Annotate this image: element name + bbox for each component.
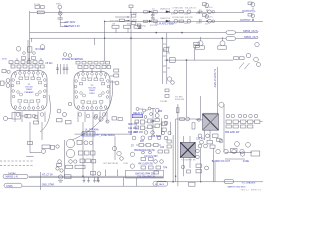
resistor R1b [41, 6, 45, 9]
transformer T2 [203, 113, 219, 130]
svg-text:OUT SEC 8R 4R: OUT SEC 8R 4R [103, 163, 119, 165]
svg-text:C15 470p: C15 470p [137, 26, 147, 28]
svg-text:1N4007 D3: 1N4007 D3 [160, 9, 171, 11]
cluster right-top circle+box 1 [198, 41, 203, 46]
wires right of V2 [110, 76, 115, 82]
wire vertical x103 [104, 21, 106, 61]
circle Q2 [174, 19, 178, 23]
connector box right 1 [226, 31, 236, 35]
svg-text:1W: 1W [112, 23, 115, 25]
svg-text:12AX7: 12AX7 [89, 89, 96, 92]
stubs into V1 top pins [20, 68, 38, 71]
wire T1 verticals [176, 104, 190, 186]
parts row under block2 [99, 117, 103, 121]
mid-right small parts [163, 37, 261, 97]
below T2 extra [198, 144, 202, 148]
circle TP1 [58, 5, 62, 9]
diagonal strokes [239, 63, 250, 70]
far right cluster [235, 142, 240, 147]
tube V2 [74, 72, 110, 111]
wire arrow feed [115, 17, 130, 21]
wire block1 drops [15, 112, 45, 153]
stubs into V2 top pins [83, 68, 101, 72]
ground [87, 177, 90, 182]
svg-text:350-0-350: 350-0-350 [175, 99, 185, 101]
wire rail2 top [105, 20, 263, 22]
T1 microtext [181, 160, 196, 162]
svg-text:C7 R9 100K: C7 R9 100K [172, 8, 184, 10]
svg-text:R30: R30 [158, 111, 163, 113]
svg-text:1N4007 D4: 1N4007 D4 [160, 18, 171, 20]
top-left cluster [35, 5, 125, 22]
capacitor below [138, 26, 142, 28]
ground left [96, 177, 99, 181]
caps between tubes [56, 64, 68, 74]
circles at 167-175 y77-84 [167, 77, 171, 81]
svg-text:C24 47u 50V: C24 47u 50V [144, 156, 158, 158]
wire tick left [26, 156, 33, 158]
svg-text:C12 47u: C12 47u [205, 17, 213, 19]
wire bottom verticals right-center [124, 108, 174, 186]
cluster top-right 1a [205, 4, 209, 8]
small box on right bus [189, 182, 196, 186]
node dots rails [152, 12, 153, 13]
wire dashes bottom left [0, 165, 33, 167]
ticks on verticals [163, 44, 170, 72]
svg-text:1: 1 [15, 77, 16, 79]
diode D4 [166, 20, 170, 22]
wire bottom double bus [29, 176, 163, 177]
resistor R5 [153, 11, 157, 13]
svg-text:F1 2A: F1 2A [34, 3, 40, 6]
svg-text:PRESENCE R40 5K: PRESENCE R40 5K [134, 150, 155, 152]
svg-text:3: 3 [87, 76, 88, 78]
wire curve flourish [72, 80, 113, 140]
svg-text:J2 IN: J2 IN [2, 59, 8, 61]
tube V1 pins sides [11, 79, 46, 98]
between-block mid parts [57, 102, 72, 124]
svg-text:COM: COM [123, 163, 128, 165]
parts left of bus end [196, 164, 202, 167]
stubs above V1 [11, 58, 41, 65]
connector box bottom right [224, 179, 234, 183]
circle Q3 [187, 10, 191, 14]
wire line y152 right [225, 151, 252, 153]
blue relay box [132, 114, 142, 118]
circles right-mid [246, 53, 251, 58]
box on vertical x166 [164, 48, 169, 52]
cluster top-right 2a [251, 3, 255, 7]
row2 [78, 151, 83, 155]
wire right connector line2 [236, 38, 259, 40]
ground [83, 177, 86, 182]
wire line B y38.2 [30, 37, 226, 39]
tube V2 inner parts [79, 75, 106, 107]
parts right of V2 [114, 69, 119, 72]
svg-text:GND_STAR: GND_STAR [42, 184, 55, 187]
resistor R3 on vertical trunk [28, 47, 32, 52]
svg-text:CHAS: CHAS [6, 185, 13, 188]
svg-text:C21 100n: C21 100n [128, 128, 139, 130]
svg-text:P.INV: P.INV [89, 93, 95, 95]
wire T2 verticals [204, 104, 224, 140]
wire rail1 top full [30, 11, 244, 13]
svg-text:NFB 47K: NFB 47K [128, 124, 138, 126]
row above V1 lower [11, 65, 15, 68]
tube V1 pins bottom [14, 106, 44, 110]
row3 [80, 159, 85, 163]
svg-text:SHEET 1/1: SHEET 1/1 [251, 190, 262, 192]
gray footer text [241, 189, 262, 191]
svg-text:R35 1K5: R35 1K5 [134, 132, 144, 134]
boxes at 194 [194, 42, 200, 45]
gray text above notes table [103, 163, 128, 165]
vertical x115 [114, 137, 116, 161]
arrowheads [128, 16, 130, 21]
wire blue net vertical x217 [216, 67, 218, 114]
svg-text:SPKR_OUT-: SPKR_OUT- [244, 35, 259, 39]
resistor R7 [179, 11, 183, 14]
resistor R6 [153, 20, 157, 22]
wire vertical x162 [161, 38, 163, 84]
top-center chain components [112, 2, 255, 29]
svg-text:R15 470K: R15 470K [110, 21, 120, 23]
svg-text:OUTPUT_R: OUTPUT_R [240, 18, 254, 22]
svg-text:C26 100u R45 1K: C26 100u R45 1K [137, 176, 156, 178]
wire vertical x94 [93, 38, 95, 45]
svg-text:HT_CT 0V: HT_CT 0V [42, 175, 53, 177]
node dot trunk x131 [130, 37, 132, 39]
tube V1 [11, 71, 47, 111]
svg-text:R37: R37 [140, 141, 145, 143]
below tube circles [16, 113, 106, 118]
circle Q5 [208, 10, 212, 14]
tube V2 pins sides [74, 80, 109, 99]
circle TP above V1 [16, 47, 21, 52]
extra parts near trunk [22, 52, 36, 60]
small boxes left of diodes [144, 11, 148, 13]
tube V2 pin numbers [78, 76, 106, 79]
box atop x131 vertical [129, 5, 133, 8]
gray text above cluster [160, 100, 168, 103]
resistor R8 [179, 20, 183, 23]
row above V1 upper [9, 61, 13, 64]
svg-text:REV 1.2: REV 1.2 [241, 189, 250, 191]
wire parts row mid-left stubs [116, 28, 128, 32]
gray text above T1 column [175, 97, 185, 102]
svg-text:C8 R10 100K: C8 R10 100K [172, 17, 185, 19]
blue label above V2 [62, 58, 83, 61]
cluster above bus [91, 171, 96, 175]
resistor boxes near x131 [131, 15, 136, 18]
wire dashes bottom left 2 [0, 160, 33, 162]
svg-text:TO_CHASSIS: TO_CHASSIS [242, 181, 256, 184]
blue microtext above box1 [8, 172, 16, 175]
svg-text:R38 560R: R38 560R [151, 136, 162, 138]
svg-text:6: 6 [101, 77, 102, 79]
svg-text:4: 4 [29, 75, 30, 77]
gray microtext parts row [110, 21, 134, 26]
node dot bus [82, 175, 84, 177]
svg-text:PREAMP: PREAMP [24, 91, 34, 94]
wire y134 [75, 133, 132, 135]
net labels blue right [240, 9, 259, 39]
resistor R1 [35, 6, 39, 9]
resistor box x169-175 [169, 58, 175, 63]
diode D2 [149, 20, 152, 22]
wire horizontal y60 right [165, 59, 234, 61]
svg-text:240VAC: 240VAC [8, 172, 16, 175]
svg-text:C19: C19 [150, 121, 155, 123]
bottom center dense cluster [130, 107, 171, 174]
net label bottom left connector 1 [6, 176, 18, 179]
tube V2 label [88, 85, 96, 95]
tube V1 inner parts [16, 74, 43, 106]
wire vertical x167 [166, 33, 168, 84]
wire bottom verticals far right [201, 131, 224, 182]
parts row between rail2 and lineA left [112, 25, 119, 28]
row1 right of cap [77, 140, 82, 144]
svg-text:630V: 630V [127, 23, 132, 25]
wire curve flourish 2 [40, 95, 50, 132]
blue label between tubes [45, 63, 53, 65]
right-mid cluster boxes [234, 57, 239, 60]
wire vertical trunk pair [27, 40, 29, 64]
diode D1 [149, 11, 152, 13]
tiny blue label left [2, 59, 8, 61]
circles column left [130, 152, 134, 156]
svg-text:10n: 10n [196, 13, 199, 15]
wire bottom lower bus left [22, 185, 157, 187]
svg-text:4: 4 [92, 76, 93, 78]
net label above bus1 [42, 175, 53, 177]
gray microtext above chains [133, 7, 213, 27]
svg-text:5: 5 [96, 76, 97, 78]
wire vertical x60 [60, 15, 68, 26]
ground symbols under double bus [83, 177, 100, 182]
capacitor pair x200 [198, 10, 203, 15]
circle Q6 [208, 19, 212, 23]
wire vertical x186.5 [186, 60, 188, 117]
wire right connector line1 [236, 32, 259, 34]
right of T2 rows [226, 114, 230, 118]
circles column x157 [155, 108, 159, 112]
svg-text:UL_TAP 40%: UL_TAP 40% [85, 129, 99, 132]
tube V1 pins top [14, 72, 44, 76]
circle below blue vertical [219, 102, 224, 107]
tube V1 label [24, 84, 34, 94]
svg-text:R17 1M: R17 1M [150, 25, 157, 27]
wire T2 left [196, 119, 203, 121]
circles between tubes upper [63, 53, 67, 57]
net label bottom right of box [228, 181, 256, 188]
connector box bottom mid [153, 181, 168, 186]
svg-text:7: 7 [105, 78, 106, 80]
svg-text:B+ SUPPLY 325V: B+ SUPPLY 325V [213, 69, 215, 88]
transformer T1 [180, 142, 195, 157]
net label bottom left connector 2 [6, 185, 13, 188]
parts below T1 [181, 165, 190, 173]
svg-text:TP4: TP4 [163, 168, 168, 170]
wire bottom verticals center [64, 139, 136, 186]
ground [97, 177, 100, 182]
svg-text:1: 1 [78, 78, 79, 80]
tube V2 pins top [77, 73, 107, 77]
row above V2 upper [76, 61, 80, 64]
net label above bus2 [42, 184, 55, 187]
circle Q1 [174, 10, 178, 14]
blue text in mid connector [155, 183, 165, 186]
svg-text:MAINS L-N: MAINS L-N [6, 176, 18, 179]
big circle cap2 [66, 149, 74, 157]
blue labels bottom center [128, 111, 168, 178]
blue label above line [85, 129, 99, 132]
capacitors mid between rails [151, 13, 155, 17]
node dot rail2 x156 [156, 32, 158, 34]
wire vertical trunk left [29, 11, 31, 64]
svg-text:RELAY K1: RELAY K1 [133, 112, 144, 115]
extra parts rows [167, 140, 171, 143]
gray labels top-left [34, 3, 62, 6]
wire block2 drops [78, 112, 107, 158]
svg-text:FUSE: FUSE [243, 161, 250, 163]
extra right column parts [238, 114, 242, 118]
svg-text:C11 47u: C11 47u [205, 7, 212, 9]
row above V2 lower [78, 65, 82, 68]
circle Q4 [187, 19, 191, 23]
wire short stubs below line B [31, 38, 33, 42]
wire vertical x131 [130, 8, 132, 134]
svg-text:+HT 320V: +HT 320V [64, 21, 76, 24]
blue labels bottom right [196, 132, 249, 163]
parts between T1 and T2 [176, 108, 200, 129]
svg-text:R50 220K 2W: R50 220K 2W [225, 132, 240, 134]
blue labels top-left [64, 21, 80, 28]
svg-text:B+ 460V DC OUT: B+ 460V DC OUT [212, 161, 231, 163]
diode D3 [166, 11, 170, 13]
svg-text:3: 3 [24, 75, 25, 77]
svg-text:PHASE INVERTER: PHASE INVERTER [62, 58, 83, 61]
svg-text:5: 5 [33, 75, 34, 77]
parts above block1 drop x27-54 y140-154 [28, 142, 55, 154]
capacitor C1 [58, 18, 63, 19]
wire bottom right bus [157, 182, 263, 186]
svg-text:SP_JACK: SP_JACK [155, 183, 165, 186]
wire line y159 right [225, 158, 245, 160]
cluster top-right 1b [205, 15, 209, 19]
svg-text:SW1: SW1 [56, 4, 62, 6]
wire stub top cluster1 [207, 8, 253, 22]
svg-text:HT_FUSE 500mA: HT_FUSE 500mA [97, 134, 116, 137]
svg-text:SPKR_OUT+: SPKR_OUT+ [243, 29, 259, 33]
cluster top-right 2b [251, 14, 255, 18]
wire line A y32.6 [30, 32, 226, 34]
svg-text:BIAS ADJ R44 25K: BIAS ADJ R44 25K [135, 172, 155, 175]
parts above buses x55-86 [56, 165, 85, 172]
small boxes near bottom [139, 144, 144, 147]
below T2 parts [196, 114, 263, 173]
svg-text:10n: 10n [196, 23, 199, 25]
box feed arrow source [119, 19, 124, 22]
svg-text:R11 22K C9: R11 22K C9 [185, 8, 197, 10]
above tube rows [9, 45, 119, 85]
left small parts [56, 145, 59, 148]
parts under block1 [26, 115, 31, 118]
big circle cap1 [66, 139, 74, 147]
svg-text:C5 22n: C5 22n [45, 63, 53, 65]
bottom mid-left cluster [26, 115, 132, 176]
ground [93, 177, 96, 182]
wire left stub x40 [40, 172, 42, 190]
svg-text:R12 22K: R12 22K [185, 17, 193, 19]
svg-text:OUTPUT_L: OUTPUT_L [242, 9, 256, 13]
svg-text:2: 2 [83, 77, 84, 79]
wire left edge into block [7, 116, 24, 118]
tube V1 pin numbers [15, 75, 43, 78]
svg-text:6: 6 [38, 76, 39, 78]
row of circles y137 [132, 136, 136, 140]
parts at vertical ends y88-100 [165, 89, 169, 92]
notes table bottom center [126, 170, 164, 178]
wire y119 link [176, 118, 201, 120]
node dot trunk x162 [162, 37, 164, 39]
svg-text:C22: C22 [160, 147, 165, 149]
circle right edge [255, 42, 259, 46]
connector box bottom left 1 [3, 174, 28, 178]
left edge parts [1, 70, 21, 121]
resistor R2 [37, 11, 44, 14]
tube V2 pins bottom [77, 106, 107, 110]
blue label right of fuse box [97, 134, 116, 137]
fuse box on line [82, 132, 95, 136]
blue label under rail2 [155, 22, 174, 25]
wire vertical x194 [193, 48, 195, 61]
svg-text:7: 7 [42, 77, 43, 79]
parts between buses x58-72 [58, 175, 71, 182]
cluster right-top circle+box 2 [220, 41, 225, 46]
svg-text:C30 47u: C30 47u [196, 139, 205, 141]
connector box bottom left 2 [4, 183, 22, 188]
lamp X1 [58, 11, 62, 15]
svg-text:12AX7: 12AX7 [26, 88, 33, 91]
boxes [141, 120, 145, 124]
svg-text:R41 100R 2W: R41 100R 2W [138, 163, 153, 165]
node dot A [181, 32, 183, 34]
label R3 [36, 48, 46, 51]
svg-text:T1 OUTPUT 8R: T1 OUTPUT 8R [181, 160, 196, 162]
wire vertical x200.7 [200, 96, 202, 119]
svg-text:2: 2 [20, 76, 21, 78]
svg-text:PS-2A3: PS-2A3 [160, 100, 168, 103]
svg-text:EARTH GND BUS: EARTH GND BUS [228, 185, 246, 188]
svg-text:HEATER 6.3V: HEATER 6.3V [64, 25, 80, 28]
connector box right 2 [226, 37, 236, 41]
blue vertical net label [213, 69, 215, 88]
